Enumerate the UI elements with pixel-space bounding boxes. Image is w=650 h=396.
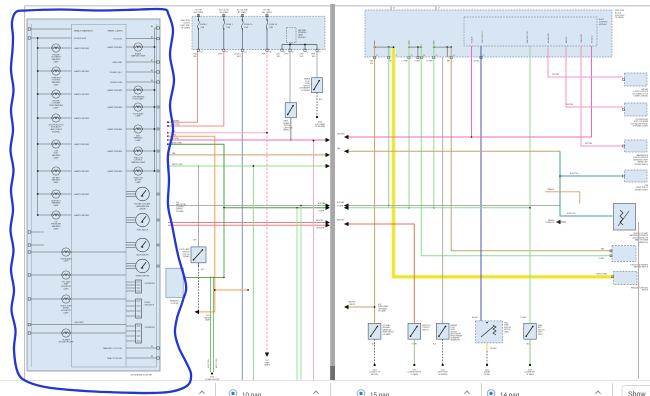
- svg-text:C3: C3: [319, 51, 321, 53]
- wire pnk tcm: [581, 46, 623, 146]
- wire tan sensor: [545, 192, 580, 204]
- toolbar page icon 15 pag: [357, 390, 365, 396]
- lamp left row 8: [38, 214, 52, 216]
- svg-text:LT GRN: LT GRN: [402, 61, 409, 63]
- svg-text:14 pag: 14 pag: [500, 392, 520, 396]
- svg-text:LAMP: LAMP: [64, 312, 70, 315]
- svg-text:GRY/PNK: GRY/PNK: [585, 143, 593, 145]
- svg-text:WARNING LAMP: WARNING LAMP: [131, 55, 146, 58]
- svg-text:SWITCH: SWITCH: [642, 290, 649, 292]
- wire blk/lt grn cluster: [168, 144, 224, 208]
- wire lt grn horizontal: [344, 207, 530, 209]
- svg-text:MODULE: MODULE: [298, 37, 306, 39]
- lamp right row 3: [126, 106, 134, 108]
- cluster internal bus: [37, 38, 39, 215]
- svg-text:LAMP DRIVER: LAMP DRIVER: [74, 170, 89, 173]
- bottom toolbar: [0, 381, 650, 396]
- wire teal pcm: [560, 151, 623, 176]
- svg-text:(ON TUNNEL FLOOR: (ON TUNNEL FLOOR: [632, 93, 648, 95]
- svg-text:FUSED IGN: FUSED IGN: [74, 38, 86, 40]
- svg-text:GRY/PNK: GRY/PNK: [552, 74, 560, 76]
- svg-text:LAMP DRIVER: LAMP DRIVER: [107, 46, 122, 49]
- svg-text:(LEFT: (LEFT: [538, 332, 542, 334]
- svg-text:C17: C17: [200, 51, 203, 53]
- svg-text:INDICATOR: INDICATOR: [145, 303, 155, 306]
- wire org cluster: [168, 136, 215, 312]
- svg-text:WARNING LAMP: WARNING LAMP: [131, 161, 146, 164]
- svg-text:MITSUBISHI GLXR WH: MITSUBISHI GLXR WH: [131, 375, 153, 377]
- svg-text:FUSE 14: FUSE 14: [244, 24, 253, 26]
- wire lt grn pair right: [296, 208, 298, 385]
- lamp left row 1: [38, 47, 52, 49]
- svg-text:GAUGE: GAUGE: [139, 207, 146, 210]
- svg-text:SPEEDOMETER: SPEEDOMETER: [136, 276, 150, 278]
- svg-text:LAMP: LAMP: [54, 61, 60, 64]
- svg-text:LAMP DRIVER: LAMP DRIVER: [107, 128, 122, 131]
- svg-text:LAMP DRIVER: LAMP DRIVER: [74, 70, 89, 73]
- svg-text:MAGNET CLUTCH: MAGNET CLUTCH: [103, 347, 122, 350]
- svg-text:C7: C7: [438, 8, 440, 10]
- svg-text:LT GRN: LT GRN: [426, 61, 433, 63]
- lamp left row 6: [38, 170, 52, 172]
- svg-text:SWITCH: SWITCH: [538, 329, 545, 331]
- svg-text:DECKLID): DECKLID): [371, 374, 379, 376]
- wire pnk air bag: [548, 46, 623, 77]
- svg-text:TRACTION SW: TRACTION SW: [107, 357, 123, 360]
- lamp right row 4: [126, 128, 134, 130]
- svg-text:BLK/LT BLU: BLK/LT BLU: [567, 213, 577, 215]
- svg-text:LAMP DRIVER: LAMP DRIVER: [107, 170, 122, 173]
- air bag control module: [625, 73, 648, 86]
- svg-text:C6: C6: [453, 55, 455, 57]
- svg-text:ODOMETER: ODOMETER: [145, 327, 156, 329]
- wire lt grn rear belt: [529, 46, 531, 323]
- svg-text:UNDER CONSOLE): UNDER CONSOLE): [634, 96, 649, 98]
- fuel level sensor S7: [476, 321, 503, 343]
- svg-text:FUSED (B+): FUSED (B+): [110, 72, 122, 74]
- node MAGNET CLUTCH: [126, 347, 157, 349]
- svg-text:G302: G302: [485, 370, 489, 372]
- svg-text:CLUSTER/LIGHT: CLUSTER/LIGHT: [635, 119, 648, 121]
- wire gry washer: [442, 57, 444, 323]
- svg-text:WHT/LT GRN: WHT/LT GRN: [216, 359, 218, 368]
- wire pnk/red fuse7: [168, 52, 198, 123]
- connector Prndl: [136, 299, 142, 318]
- svg-text:C13: C13: [244, 51, 247, 53]
- svg-text:6/02: 6/02: [378, 304, 381, 306]
- svg-text:BLK/LT BLU: BLK/LT BLU: [570, 173, 580, 175]
- svg-text:FUSE 1: FUSE 1: [226, 24, 234, 26]
- right page border: [638, 222, 640, 379]
- node FUSED IGN: [126, 81, 157, 83]
- wire tan backup: [374, 44, 376, 323]
- rear belt switch S8: [524, 323, 537, 339]
- park switch S4: [368, 323, 381, 339]
- wire lt grn long: [224, 207, 329, 209]
- wire pnk vertical right: [313, 141, 315, 388]
- lamp left row 7: [38, 193, 52, 195]
- wire lt grn small branch: [183, 276, 224, 278]
- body control module U2: [464, 17, 597, 46]
- svg-text:DK BLU: DK BLU: [474, 61, 481, 63]
- svg-text:C6: C6: [393, 8, 395, 10]
- svg-text:(BOTTOM LEFT: (BOTTOM LEFT: [451, 333, 462, 335]
- abs control module: [625, 103, 648, 116]
- gauge Engine Coolant: [126, 191, 136, 193]
- wire pnk fuse16: [266, 52, 268, 356]
- svg-text:ENGINE: ENGINE: [548, 220, 554, 222]
- svg-text:PUMP: PUMP: [504, 325, 509, 327]
- svg-text:G200: G200: [412, 370, 416, 372]
- svg-text:C3: C3: [411, 55, 413, 57]
- engine coolant temperature sensor: [614, 204, 636, 231]
- lamp right row 2: [126, 89, 134, 91]
- svg-text:LAMP: LAMP: [54, 107, 60, 110]
- svg-text:(IN FUEL: (IN FUEL: [504, 329, 511, 331]
- daytime running lamp module: [287, 28, 296, 43]
- svg-text:(ON ENGINE BELOW: (ON ENGINE BELOW: [632, 237, 648, 239]
- svg-text:LAMP: LAMP: [136, 115, 142, 118]
- svg-text:LAMP: LAMP: [64, 260, 70, 263]
- park brake switch S3: [285, 103, 296, 118]
- wire tan long: [168, 154, 329, 156]
- node FUSED (B+): [126, 71, 157, 73]
- svg-text:LAMP DRIVER: LAMP DRIVER: [74, 193, 89, 196]
- svg-text:(LEFT FRONT: (LEFT FRONT: [438, 372, 448, 374]
- lamp bottom row 2: [31, 274, 62, 276]
- wire dk blu/wht fuse14: [241, 52, 243, 390]
- powertrain control module: [625, 170, 648, 182]
- svg-text:INDICATOR LAMP: INDICATOR LAMP: [58, 341, 74, 344]
- wire wht/blk brake fluid: [316, 52, 318, 78]
- wire lt grn vertical: [252, 166, 254, 387]
- wire blk/tan pair: [168, 205, 329, 207]
- svg-text:MODULE: MODULE: [504, 327, 511, 329]
- svg-text:ALL TIMES: ALL TIMES: [262, 11, 272, 14]
- wire red/yel function sw: [344, 224, 414, 323]
- svg-text:BLK/TAN: BLK/TAN: [337, 201, 345, 204]
- junction block J1: [192, 16, 325, 49]
- svg-text:GRY/PNK: GRY/PNK: [566, 104, 574, 106]
- svg-text:Show: Show: [628, 392, 646, 396]
- svg-text:LIGHTS: LIGHTS: [349, 304, 356, 306]
- svg-text:FUSE 7: FUSE 7: [200, 24, 208, 26]
- misc small box left of loop: [166, 268, 183, 297]
- connector Odometer: [136, 280, 142, 293]
- svg-text:LAMP: LAMP: [54, 228, 60, 231]
- turn signal flasher switch: [612, 246, 636, 262]
- svg-text:LAMP: LAMP: [136, 181, 142, 184]
- connector Odometer: [136, 324, 142, 343]
- svg-text:LAMP DRIVER: LAMP DRIVER: [74, 93, 89, 96]
- svg-text:CYLINDER): CYLINDER): [301, 90, 311, 92]
- svg-text:RED/YEL: RED/YEL: [337, 220, 344, 222]
- wire red/yel pair: [168, 222, 329, 224]
- toolbar collapse chevron: [199, 391, 204, 394]
- lamp bottom row 1: [31, 251, 62, 253]
- node ground: [31, 324, 126, 326]
- svg-text:LAMP DRIVER: LAMP DRIVER: [74, 214, 89, 217]
- svg-text:C11: C11: [269, 51, 272, 53]
- node GROUND: [126, 61, 157, 63]
- bus group 1: [374, 41, 376, 48]
- svg-text:SUMP SWITCH: SUMP SWITCH: [383, 332, 395, 334]
- node TRACTION SW: [126, 357, 157, 359]
- svg-text:SENSOR: SENSOR: [451, 331, 458, 333]
- svg-text:C8: C8: [292, 51, 294, 53]
- wire tan flasher: [451, 47, 612, 251]
- svg-text:FENDER SHIELD): FENDER SHIELD): [635, 164, 649, 166]
- svg-text:LAMP: LAMP: [54, 204, 60, 207]
- svg-text:GRY/PNK: GRY/PNK: [337, 134, 345, 136]
- show button: [622, 386, 650, 396]
- junction block top stubs: [390, 7, 392, 11]
- svg-text:BLK/LT GRN: BLK/LT GRN: [208, 359, 210, 368]
- svg-text:(LOWER LEFT: (LOWER LEFT: [525, 372, 536, 374]
- lamp left row 3: [38, 93, 52, 95]
- svg-text:6,04: 6,04: [176, 202, 179, 204]
- wire lt grn c: [433, 44, 435, 208]
- svg-text:(CONDUIT OF: (CONDUIT OF: [369, 372, 379, 374]
- svg-text:FUEL GAUGE: FUEL GAUGE: [137, 229, 149, 232]
- svg-text:TRUNK): TRUNK): [484, 374, 490, 376]
- wire drl bus: [282, 44, 317, 46]
- wire grn pair to ground: [210, 277, 212, 372]
- toolbar page icon 14 pag: [487, 390, 495, 396]
- svg-text:FUSED IGN: FUSED IGN: [110, 82, 122, 84]
- transmission control module: [625, 140, 648, 152]
- wire wht/lt grn long: [168, 165, 329, 167]
- svg-text:LT GRN: LT GRN: [598, 258, 605, 260]
- wire brake warning input: [31, 28, 72, 30]
- svg-text:ENGINE): ENGINE): [52, 132, 60, 134]
- svg-text:LAMP: LAMP: [64, 288, 70, 291]
- svg-text:CONTROL: CONTROL: [422, 327, 430, 329]
- svg-text:LAMP: LAMP: [54, 84, 60, 87]
- svg-text:RESERVOIR): RESERVOIR): [451, 340, 461, 342]
- svg-text:15 pag: 15 pag: [370, 392, 390, 396]
- lamp left row 5: [38, 143, 52, 145]
- toolbar collapse chevron: [595, 391, 600, 394]
- svg-text:CENTER: CENTER: [176, 209, 183, 211]
- svg-text:LT GRN: LT GRN: [414, 61, 421, 63]
- svg-text:OF ENGINE COMPT): OF ENGINE COMPT): [633, 126, 649, 128]
- svg-text:BLK/TAN: BLK/TAN: [318, 202, 326, 205]
- cluster right bus: [154, 28, 156, 171]
- svg-text:LAMP: LAMP: [54, 157, 60, 160]
- wire lt grn flasher: [421, 44, 612, 256]
- wire pnk abs: [566, 46, 623, 107]
- svg-text:ENGINE COMPT): ENGINE COMPT): [635, 189, 648, 191]
- svg-text:PCI BUS: PCI BUS: [472, 37, 474, 43]
- page separator: [330, 4, 335, 380]
- svg-text:BELT: BELT: [538, 327, 542, 329]
- svg-text:OF DASH): OF DASH): [615, 16, 624, 19]
- wire tan pcm: [344, 150, 560, 152]
- svg-text:G304: G304: [373, 370, 377, 372]
- wire lt grn d: [388, 47, 390, 206]
- svg-text:FUSE 16: FUSE 16: [269, 24, 278, 26]
- svg-text:SWITCH: SWITCH: [422, 329, 429, 331]
- gauge Fuel Gauge: [126, 217, 136, 219]
- wire dk blu fuel: [480, 46, 482, 321]
- svg-text:LAMP DRIVER: LAMP DRIVER: [107, 89, 122, 92]
- svg-text:YEL/BLK: YEL/BLK: [490, 348, 497, 350]
- svg-text:(IN ENGINE COMPT: (IN ENGINE COMPT: [633, 159, 648, 161]
- svg-text:OF ENGINE): OF ENGINE): [438, 374, 448, 376]
- svg-text:TACHOMETER: TACHOMETER: [136, 254, 149, 257]
- svg-text:HOT AT: HOT AT: [195, 9, 202, 12]
- svg-text:LAMP DRIVER: LAMP DRIVER: [74, 117, 89, 120]
- svg-text:PCI BUS: PCI BUS: [113, 39, 122, 41]
- svg-text:C15: C15: [225, 51, 228, 53]
- svg-text:FUEL: FUEL: [504, 323, 508, 325]
- svg-text:DK BLU: DK BLU: [472, 317, 479, 319]
- hand-drawn blue loop annotation: [10, 9, 191, 393]
- lamp left row 2: [38, 70, 52, 72]
- svg-text:10 pag: 10 pag: [242, 392, 262, 396]
- svg-text:PCI BUS J: PCI BUS J: [592, 35, 594, 43]
- svg-text:CLUSTER: CLUSTER: [171, 303, 180, 305]
- svg-text:OF ENGINE): OF ENGINE): [315, 126, 325, 128]
- svg-text:MODULE: MODULE: [599, 24, 607, 26]
- svg-text:C1: C1: [376, 55, 378, 57]
- washer fluid level sensor S6: [436, 323, 449, 339]
- svg-text:FUNCTION: FUNCTION: [422, 325, 431, 327]
- svg-text:LAMP DRIVER: LAMP DRIVER: [74, 143, 89, 146]
- svg-text:G300: G300: [528, 370, 532, 372]
- svg-text:CLUSTER: CLUSTER: [176, 206, 184, 208]
- svg-text:LAMP DRIVER: LAMP DRIVER: [74, 47, 89, 50]
- svg-text:(LOWER CENTER: (LOWER CENTER: [408, 372, 422, 374]
- svg-text:LAMPS: LAMPS: [264, 364, 271, 367]
- svg-text:C7: C7: [483, 55, 485, 57]
- svg-text:(RIGHT SIDE OF: (RIGHT SIDE OF: [636, 187, 648, 189]
- bus group 2: [408, 41, 410, 48]
- svg-text:OR START: OR START: [219, 11, 229, 14]
- svg-text:SIDE): SIDE): [538, 334, 543, 336]
- wire pnk cluster: [168, 132, 267, 134]
- svg-text:LT GRN: LT GRN: [520, 317, 527, 319]
- wire fused ign: [31, 37, 72, 39]
- svg-text:CONTROLS: CONTROLS: [545, 222, 554, 224]
- lamp bottom row 4: [31, 332, 62, 334]
- svg-text:CONTROL MODULE: CONTROL MODULE: [633, 157, 648, 159]
- svg-text:LAMP: LAMP: [136, 139, 142, 142]
- lamp left row 4: [38, 117, 52, 119]
- svg-text:C5: C5: [435, 55, 437, 57]
- wire wht fuse1: [168, 52, 224, 127]
- lamp right row 1: [126, 46, 134, 48]
- svg-text:AT START: AT START: [238, 11, 248, 14]
- svg-text:HOT AT: HOT AT: [264, 9, 271, 12]
- svg-text:GROUND: GROUND: [112, 62, 122, 64]
- brake fluid level switch S2: [311, 78, 322, 93]
- svg-text:G102: G102: [441, 370, 445, 372]
- svg-text:CONTROL MODULE: CONTROL MODULE: [633, 91, 648, 93]
- svg-text:ALL TIMES: ALL TIMES: [194, 11, 204, 14]
- svg-text:7.5A: 7.5A: [226, 26, 231, 29]
- svg-text:LT GRN: LT GRN: [337, 206, 344, 208]
- svg-text:FLUID LAMP: FLUID LAMP: [133, 98, 144, 101]
- svg-text:PEDAL): PEDAL): [183, 255, 190, 258]
- wire gry stop lamp: [197, 166, 199, 247]
- svg-text:BEHIND LEFT: BEHIND LEFT: [638, 162, 648, 164]
- wire lt grn b: [408, 44, 410, 208]
- lamp right row 5: [126, 150, 134, 152]
- gauge Speedometer: [126, 263, 136, 265]
- wire yel headlamp leveling: [394, 48, 614, 277]
- svg-text:C4: C4: [423, 55, 425, 57]
- svg-text:LAMP DRIVER: LAMP DRIVER: [107, 150, 122, 153]
- stop lamp switch S1: [191, 247, 206, 263]
- svg-text:BRAKE WARNING: BRAKE WARNING: [74, 29, 93, 32]
- function control switch S5: [408, 323, 421, 339]
- off page engine controls: [556, 220, 561, 224]
- cluster edge pins right: [157, 106, 159, 108]
- svg-text:TROUBLE: TROUBLE: [316, 228, 325, 230]
- wire pnk inner b: [471, 46, 473, 137]
- toolbar page icon 10 pag: [229, 390, 237, 396]
- svg-text:LEVEL: LEVEL: [451, 329, 456, 331]
- wire pnk long: [346, 46, 592, 137]
- junction block right J2: [365, 10, 612, 57]
- wire vio/pnk long: [168, 139, 329, 141]
- svg-text:FUEL LEVEL IN: FUEL LEVEL IN: [482, 31, 484, 43]
- wire gry park brake: [289, 52, 291, 103]
- svg-text:LAMP DRIVER: LAMP DRIVER: [107, 106, 122, 109]
- wire cluster feeds left: [31, 231, 44, 233]
- headlamp leveling switch: [614, 272, 638, 285]
- svg-text:WHT/LT GRN: WHT/LT GRN: [597, 273, 608, 275]
- svg-text:PANEL LAMPS: PANEL LAMPS: [108, 29, 123, 32]
- lamp bottom row 3: [31, 298, 62, 300]
- wire blk/tan gray: [344, 205, 560, 207]
- svg-text:LT GRN: LT GRN: [318, 211, 325, 213]
- toolbar collapse chevron: [464, 391, 469, 394]
- svg-text:(UNDER: (UNDER: [484, 372, 491, 374]
- instrument cluster U1: [27, 19, 160, 371]
- svg-text:ODOMETER: ODOMETER: [145, 283, 156, 285]
- svg-text:OF DASH): OF DASH): [181, 27, 190, 30]
- svg-text:FRONT FENDER: FRONT FENDER: [451, 336, 464, 338]
- svg-text:LAMP: LAMP: [54, 181, 60, 184]
- bus group 3: [433, 41, 435, 48]
- lamp right row 6: [126, 170, 134, 172]
- svg-text:PANEL): PANEL): [284, 129, 290, 132]
- svg-text:SYSTEM (LEFT FRONT: SYSTEM (LEFT FRONT: [631, 123, 648, 125]
- toolbar collapse chevron: [313, 391, 318, 394]
- node PCI BUS: [126, 38, 157, 40]
- svg-text:C5: C5: [307, 51, 309, 53]
- svg-text:RED/YEL: RED/YEL: [316, 220, 323, 222]
- svg-text:GROUND: GROUND: [74, 322, 84, 324]
- gauge Tachometer: [126, 242, 136, 244]
